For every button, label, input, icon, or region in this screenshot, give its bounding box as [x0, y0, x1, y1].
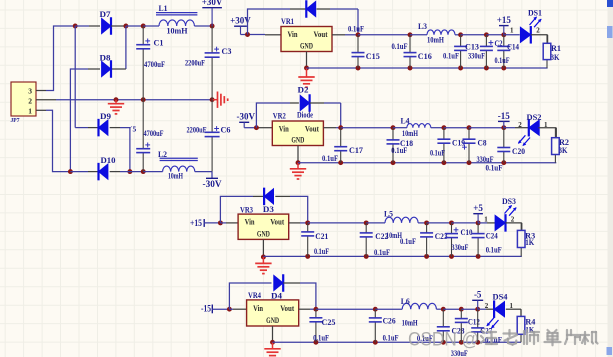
svg-text:3: 3: [28, 87, 32, 96]
svg-text:DS4: DS4: [493, 292, 508, 301]
svg-text:GND: GND: [266, 316, 279, 325]
svg-text:4700uF: 4700uF: [144, 129, 164, 138]
svg-text:1: 1: [484, 215, 488, 223]
svg-text:330uF: 330uF: [451, 243, 468, 252]
svg-text:C24: C24: [486, 231, 498, 240]
svg-text:+5: +5: [473, 203, 483, 213]
svg-text:2: 2: [536, 26, 540, 34]
svg-text:10mH: 10mH: [168, 171, 184, 180]
svg-text:Diode: Diode: [297, 111, 313, 120]
svg-text:330uF: 330uF: [477, 155, 494, 164]
svg-text:1: 1: [510, 26, 514, 34]
svg-text:C6: C6: [221, 126, 231, 135]
svg-text:2200uF: 2200uF: [187, 126, 207, 135]
svg-text:´5: ´5: [130, 125, 136, 134]
svg-text:GND: GND: [257, 230, 270, 239]
svg-text:1K: 1K: [525, 238, 535, 247]
svg-text:Vout: Vout: [305, 124, 319, 133]
svg-text:CSDN @: CSDN @: [408, 329, 479, 351]
svg-text:Vin: Vin: [253, 304, 263, 313]
svg-text:2: 2: [28, 97, 32, 106]
svg-text:C25: C25: [322, 318, 336, 327]
svg-text:0.1uF: 0.1uF: [486, 246, 502, 255]
svg-text:0.1uF: 0.1uF: [348, 25, 364, 34]
svg-text:1: 1: [510, 302, 514, 310]
svg-text:Vin: Vin: [245, 218, 255, 227]
svg-text:-30V: -30V: [237, 112, 256, 122]
svg-text:Vout: Vout: [314, 30, 328, 39]
svg-text:2: 2: [485, 302, 489, 310]
svg-text:4700uF: 4700uF: [144, 60, 165, 69]
svg-text:VR2: VR2: [273, 111, 286, 121]
svg-text:L2: L2: [158, 150, 167, 159]
svg-text:0.1uF: 0.1uF: [322, 154, 338, 163]
svg-text:C8: C8: [478, 138, 487, 147]
svg-text:0.1uF: 0.1uF: [495, 56, 510, 65]
svg-text:D8: D8: [100, 54, 111, 63]
svg-text:0.1uF: 0.1uF: [392, 42, 408, 51]
svg-text:2: 2: [518, 121, 522, 129]
svg-text:D9: D9: [100, 112, 111, 121]
svg-text:D3: D3: [263, 205, 274, 214]
svg-text:VR4: VR4: [248, 290, 262, 300]
svg-text:0.1uF: 0.1uF: [314, 247, 329, 256]
svg-text:C15: C15: [366, 52, 380, 61]
svg-text:JP7: JP7: [11, 117, 21, 124]
svg-text:10mH: 10mH: [402, 129, 419, 138]
svg-text:L4: L4: [401, 117, 410, 126]
svg-text:C22: C22: [375, 232, 388, 241]
svg-text:C10: C10: [461, 228, 473, 237]
svg-text:+15: +15: [497, 15, 512, 25]
svg-text:DS1: DS1: [528, 9, 542, 18]
svg-text:D4: D4: [271, 292, 282, 301]
svg-text:0.1uF: 0.1uF: [383, 334, 399, 343]
svg-text:D7: D7: [100, 10, 111, 19]
svg-text:C20: C20: [512, 147, 525, 156]
svg-text:10mH: 10mH: [427, 35, 445, 44]
svg-text:1: 1: [544, 121, 548, 129]
svg-text:0.1uF: 0.1uF: [400, 237, 416, 246]
svg-text:1: 1: [28, 107, 32, 116]
svg-text:+30V: +30V: [202, 0, 223, 7]
svg-text:3K: 3K: [559, 146, 569, 155]
svg-text:D10: D10: [101, 156, 116, 165]
svg-text:C17: C17: [349, 146, 363, 155]
svg-text:Vin: Vin: [279, 124, 289, 133]
svg-text:D2: D2: [298, 86, 309, 95]
svg-text:+30V: +30V: [230, 16, 251, 26]
svg-text:DS2: DS2: [527, 113, 542, 122]
svg-text:C14: C14: [507, 43, 519, 52]
svg-text:C3: C3: [222, 47, 232, 56]
svg-text:0.1uF: 0.1uF: [374, 248, 390, 257]
svg-text:VR3: VR3: [240, 205, 253, 215]
svg-text:C26: C26: [383, 317, 396, 326]
svg-text:Vout: Vout: [270, 218, 284, 227]
svg-text:0.1uF: 0.1uF: [391, 146, 407, 155]
svg-text:L1: L1: [159, 4, 168, 13]
svg-text:C1: C1: [154, 38, 164, 47]
svg-text:Vin: Vin: [288, 30, 298, 39]
svg-text:2200uF: 2200uF: [185, 58, 205, 67]
svg-text:-30V: -30V: [203, 179, 223, 189]
svg-text:GND: GND: [300, 42, 313, 51]
svg-text:DS3: DS3: [502, 197, 516, 206]
svg-text:C21: C21: [315, 232, 328, 241]
svg-text:C13: C13: [465, 43, 479, 52]
svg-text:-15: -15: [498, 111, 510, 121]
svg-text:0.1uF: 0.1uF: [313, 334, 329, 343]
svg-text:3K: 3K: [551, 53, 561, 62]
svg-text:L5: L5: [384, 210, 393, 219]
svg-text:R1: R1: [551, 44, 561, 53]
svg-text:L3: L3: [418, 22, 427, 31]
svg-text:+15: +15: [190, 218, 202, 228]
svg-text:Vout: Vout: [280, 304, 294, 313]
svg-text:330uF: 330uF: [468, 52, 485, 61]
svg-text:10mH: 10mH: [167, 27, 189, 36]
svg-text:-5: -5: [474, 290, 482, 300]
svg-text:2: 2: [511, 215, 515, 223]
svg-text:0.1uF: 0.1uF: [486, 164, 503, 173]
svg-text:VR1: VR1: [281, 16, 294, 26]
svg-text:10mH: 10mH: [402, 318, 419, 327]
svg-text:-15: -15: [201, 303, 211, 313]
svg-text:0.1uF: 0.1uF: [430, 148, 445, 157]
svg-text:0.1uF: 0.1uF: [443, 52, 459, 61]
svg-text:C16: C16: [418, 52, 432, 61]
svg-text:GND: GND: [291, 136, 304, 145]
svg-text:L6: L6: [401, 297, 410, 306]
